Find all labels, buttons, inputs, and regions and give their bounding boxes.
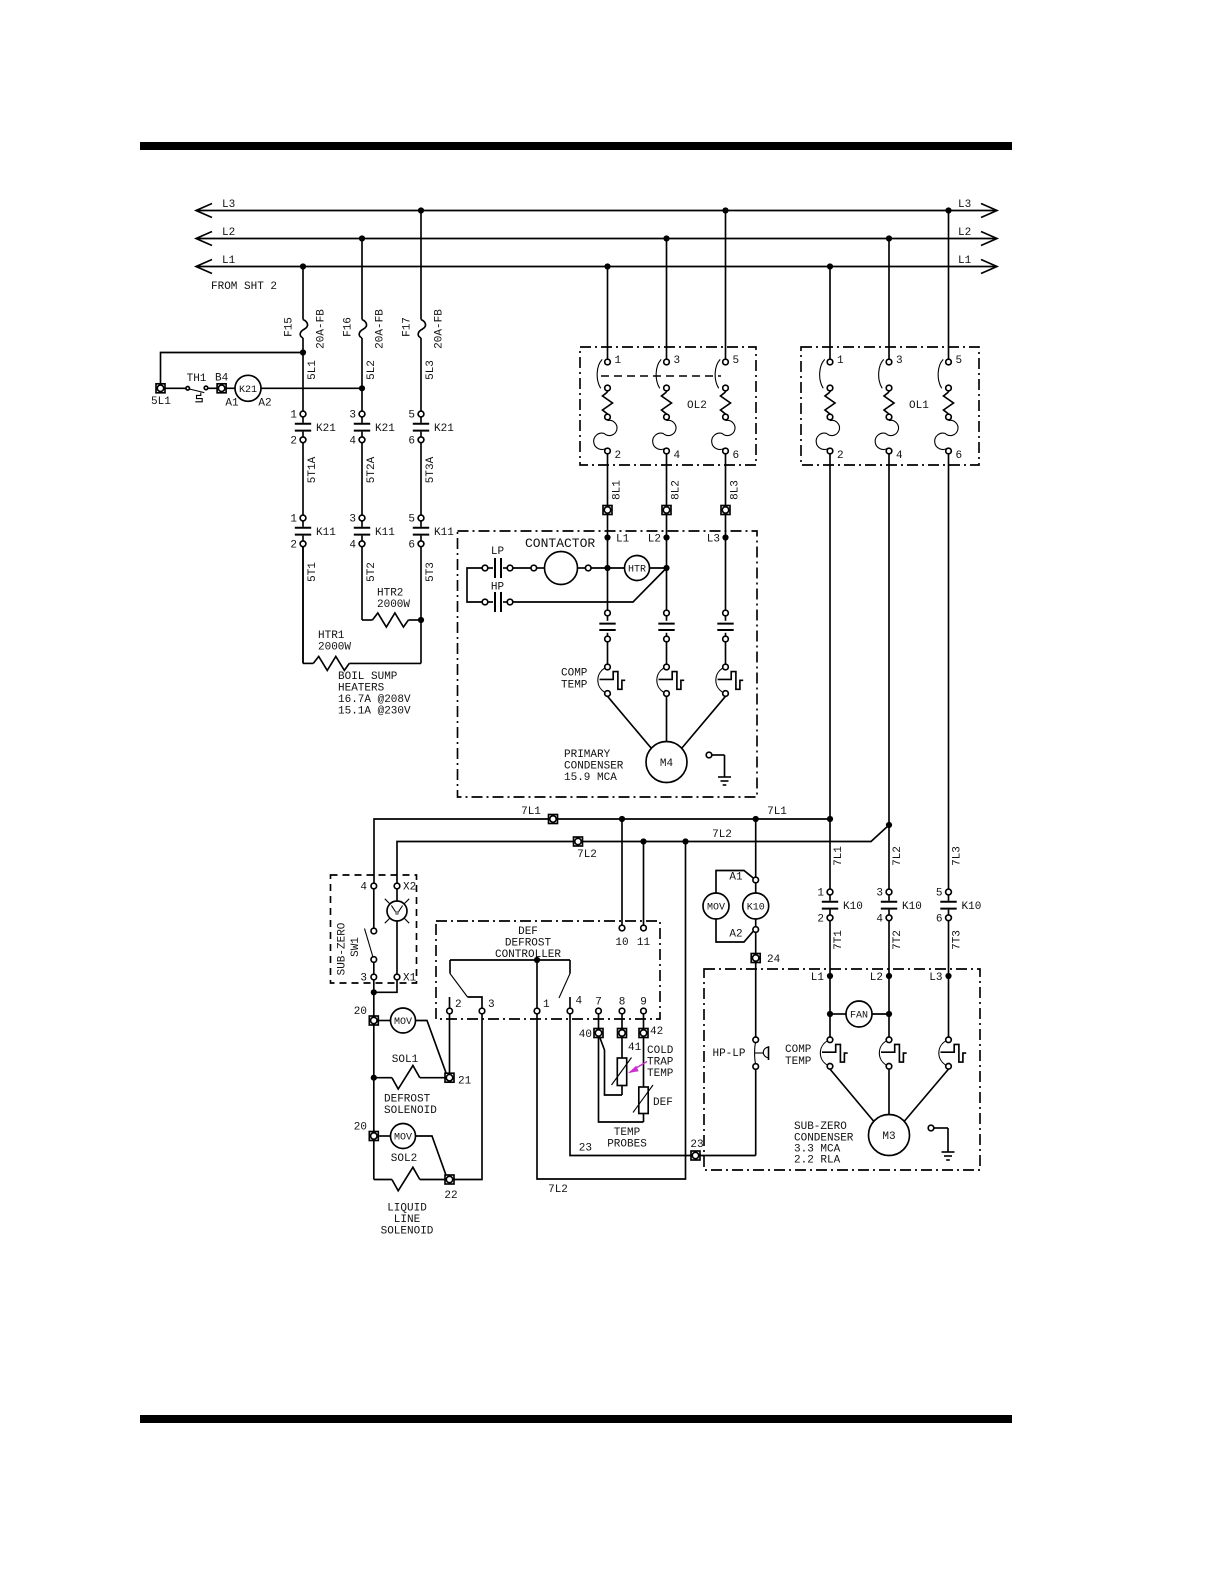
svg-text:7: 7 [595, 997, 602, 1009]
svg-text:5T2A: 5T2A [366, 456, 378, 483]
wire L2 rail to fuse F16 [361, 239, 363, 320]
wire terminal 9 to 42 [643, 1014, 645, 1029]
svg-text:1: 1 [290, 410, 297, 422]
wire 4 to switch [373, 889, 375, 928]
arrow left of rail [196, 232, 212, 246]
svg-text:FROM SHT 2: FROM SHT 2 [211, 281, 277, 293]
terminal 8L3 [721, 506, 730, 515]
arrow right of rail [981, 204, 997, 218]
svg-text:CONTACTOR: CONTACTOR [525, 536, 595, 551]
contactor main contact [599, 610, 615, 642]
pressure switch HP-LP [753, 1037, 769, 1069]
svg-text:5: 5 [733, 355, 740, 367]
wire 7L1 vertical OL1 to K10 [829, 454, 831, 889]
wire pole drop x=666.5 [666, 538, 668, 611]
terminal 8L2 [662, 506, 671, 515]
wire 7T1 [829, 921, 831, 976]
svg-text:6: 6 [408, 539, 415, 551]
arrow left of rail [196, 204, 212, 218]
pressure switch HP [482, 592, 513, 612]
svg-text:20A-FB: 20A-FB [316, 309, 328, 349]
wire X2 to lamp [396, 889, 398, 901]
node L2 condenser [886, 973, 892, 979]
svg-text:22: 22 [444, 1190, 457, 1202]
node L3/OL2 junction [722, 207, 728, 213]
wire L1 rail to fuse F15 [302, 267, 304, 320]
node SW1 output join [371, 989, 377, 995]
wire rail to OL1 terminal 3 [888, 239, 890, 360]
svg-text:2: 2 [290, 539, 297, 551]
svg-text:6: 6 [733, 450, 740, 462]
wire 3 down [373, 980, 375, 1016]
svg-text:5T3A: 5T3A [425, 456, 437, 483]
svg-text:COLD: COLD [647, 1045, 674, 1057]
wire rail to OL2 terminal 3 [666, 239, 668, 360]
wire 5T3 to HTR1 [420, 620, 422, 663]
thermal switch COMP TEMP [657, 664, 684, 696]
terminal 2 [447, 1008, 453, 1014]
wire 5T2 [361, 547, 363, 620]
wire 5L1 terminal to TH1 [165, 387, 186, 389]
overload element OL1 3-4 [875, 355, 903, 462]
mechanical linkage OL2 [601, 375, 721, 377]
svg-text:7L3: 7L3 [952, 846, 964, 866]
terminal 5L1 [156, 384, 165, 393]
svg-text:F15: F15 [284, 317, 296, 337]
node L3 in contactor box [722, 534, 728, 540]
varistor MOV (SOL1) [391, 1008, 416, 1033]
svg-text:HTR1: HTR1 [318, 630, 345, 642]
controller internal bus [450, 959, 570, 961]
svg-text:4: 4 [576, 996, 583, 1008]
wire comp temp to M4 left [608, 696, 652, 748]
svg-text:5L1: 5L1 [151, 396, 171, 408]
svg-text:CONDENSER: CONDENSER [564, 761, 624, 773]
wire coil to L1 [591, 567, 608, 569]
svg-text:L1: L1 [811, 972, 825, 984]
bottom border bar [140, 1415, 1012, 1423]
thermal switch COMP TEMP [716, 664, 743, 696]
svg-text:1: 1 [543, 999, 550, 1011]
svg-text:7L2: 7L2 [892, 846, 904, 866]
wire 5T2A [361, 443, 363, 515]
wire X1 join [374, 980, 397, 993]
svg-text:8L1: 8L1 [612, 480, 624, 500]
wire 40 jog to 41 probe bottom [600, 1038, 622, 1095]
svg-text:6: 6 [936, 913, 943, 925]
relay contact K10 5-6 [936, 888, 981, 926]
fuse F15 20A-FB [300, 320, 307, 339]
wire A2 to terminal 24 [755, 932, 757, 953]
ground in condenser box [928, 1125, 954, 1160]
wire 5T1 [302, 547, 304, 664]
wire 22 to controller 3 [454, 1014, 482, 1180]
wire condenser pole x=830 [829, 976, 831, 1037]
svg-text:20A-FB: 20A-FB [375, 309, 387, 349]
svg-text:41: 41 [628, 1042, 642, 1054]
svg-text:HEATERS: HEATERS [338, 683, 385, 695]
svg-text:B4: B4 [215, 372, 229, 384]
wire 5T1A [302, 443, 304, 515]
terminal 9 [641, 1008, 647, 1014]
svg-text:BOIL SUMP: BOIL SUMP [338, 671, 398, 683]
thermistor 41 (cold trap temp) [612, 1038, 632, 1096]
node L1/OL2 junction [604, 263, 610, 269]
sub-zero switch SW1 box [331, 875, 417, 983]
svg-text:TEMP: TEMP [614, 1127, 641, 1139]
wire pole drop x=725.5 [725, 538, 727, 611]
solenoid SOL1 [374, 1077, 392, 1079]
terminal on 7L2 [574, 837, 583, 846]
svg-text:1: 1 [615, 355, 622, 367]
wire L3 rail to fuse F17 [420, 211, 422, 320]
overload relay OL1 box [801, 347, 979, 465]
svg-text:SOLENOID: SOLENOID [384, 1105, 437, 1117]
wire 21 to controller 2 [449, 1014, 451, 1073]
node 7L2/OL1 output [886, 822, 892, 828]
node HTR2/5T3 junction [418, 617, 424, 623]
wire 7T2 [888, 921, 890, 976]
terminal 4 stub [569, 997, 571, 1008]
svg-text:5L3: 5L3 [425, 360, 437, 380]
svg-text:SOL1: SOL1 [392, 1054, 419, 1066]
arrow right of rail [981, 260, 997, 274]
svg-text:HTR: HTR [628, 565, 646, 576]
svg-text:5L1: 5L1 [307, 360, 319, 380]
svg-text:16.7A @208V: 16.7A @208V [338, 694, 411, 706]
svg-text:4: 4 [360, 882, 367, 894]
svg-text:20A-FB: 20A-FB [434, 309, 446, 349]
svg-text:A2: A2 [258, 398, 271, 410]
wire condenser pole x=948.5 [948, 976, 950, 1037]
terminal 3 [479, 1008, 485, 1014]
svg-text:HTR2: HTR2 [377, 588, 403, 600]
svg-text:COMP: COMP [785, 1044, 812, 1056]
svg-text:2: 2 [455, 999, 462, 1011]
thermal switch COMP TEMP (condenser) [879, 1037, 906, 1069]
svg-text:L2: L2 [958, 227, 971, 239]
svg-text:40: 40 [579, 1029, 592, 1041]
wire 7L1 bus [374, 819, 830, 884]
overload relay OL2 box [580, 347, 756, 465]
terminal 7 [596, 1008, 602, 1014]
svg-text:SUB-ZERO: SUB-ZERO [337, 922, 349, 975]
svg-text:K10: K10 [962, 901, 982, 913]
wire rail to OL2 terminal 5 [725, 211, 727, 360]
wire 8L2 to contactor box [666, 515, 668, 538]
wire HTR to L2 [650, 567, 667, 569]
contactor contact K11 1-2 [290, 514, 336, 552]
wire contact to comp temp [607, 642, 609, 664]
contactor coil [531, 552, 591, 585]
motor M4 [646, 742, 687, 783]
switch SW1 blade [365, 928, 377, 962]
svg-text:7T1: 7T1 [833, 930, 845, 950]
wire HP to L2 diagonal [513, 568, 667, 602]
motor M3 [869, 1115, 910, 1156]
svg-text:TH1: TH1 [187, 373, 207, 385]
svg-text:7L2: 7L2 [548, 1184, 568, 1196]
svg-text:K10: K10 [747, 903, 765, 914]
wire 7L3 vertical OL1 to K10 [948, 454, 950, 889]
wire terminal 7 to 40 [598, 1014, 600, 1029]
wire MOV to A1 [716, 871, 753, 894]
wire 7T3 [948, 921, 950, 976]
wire comp temp to M3 middle [888, 1069, 890, 1114]
wire HP-LP down [755, 1069, 757, 1155]
svg-text:5T1: 5T1 [307, 562, 319, 582]
svg-text:7T3: 7T3 [952, 930, 964, 950]
svg-text:4: 4 [674, 450, 681, 462]
terminal 4 of SW1 [371, 883, 377, 889]
contactor contact K11 3-4 [349, 514, 395, 552]
svg-text:F17: F17 [402, 317, 414, 337]
svg-text:TRAP: TRAP [647, 1057, 674, 1069]
wire 5L2 [361, 338, 363, 411]
svg-text:8L3: 8L3 [730, 480, 742, 500]
node L3 condenser [945, 973, 951, 979]
wire 20 to SOL1 node [373, 1025, 375, 1078]
svg-text:21: 21 [458, 1076, 472, 1088]
wire 5L1 [302, 338, 304, 411]
wire MOV2 to terminal 22 [416, 1136, 447, 1175]
terminal 22 [445, 1175, 454, 1184]
arrow left of rail [196, 260, 212, 274]
svg-text:3: 3 [360, 973, 367, 985]
svg-text:5T3: 5T3 [425, 562, 437, 582]
svg-text:7L1: 7L1 [521, 806, 541, 818]
wire 7L1 to terminal 10 [621, 819, 623, 925]
svg-text:8L2: 8L2 [671, 480, 683, 500]
wire L1 rail [198, 266, 995, 268]
svg-text:K21: K21 [239, 385, 257, 396]
svg-text:DEFROST: DEFROST [384, 1094, 431, 1106]
terminal 11 [641, 925, 647, 931]
contactor main contact [717, 610, 733, 642]
svg-text:SOL2: SOL2 [391, 1153, 417, 1165]
thermal switch TH1 [186, 386, 208, 402]
svg-text:2000W: 2000W [377, 599, 410, 611]
svg-text:3: 3 [349, 514, 356, 526]
wire 8L1 [607, 454, 609, 506]
node L2/OL1 junction [886, 235, 892, 241]
node 7L2/controller-11 [640, 838, 646, 844]
svg-text:LP: LP [491, 546, 505, 558]
terminal 8 [619, 1008, 625, 1014]
svg-text:4: 4 [876, 913, 883, 925]
svg-text:L2: L2 [648, 534, 661, 546]
wire 20 to MOV1 [378, 1020, 390, 1022]
svg-text:MOV: MOV [707, 903, 725, 914]
svg-text:4: 4 [349, 539, 356, 551]
svg-text:L2: L2 [222, 227, 235, 239]
wire comp temp to M4 right [682, 696, 726, 748]
svg-text:OL1: OL1 [909, 400, 929, 412]
terminal 42 [639, 1029, 648, 1038]
wire rail to OL1 terminal 1 [829, 267, 831, 360]
svg-text:1: 1 [817, 888, 824, 900]
svg-text:20: 20 [354, 1122, 367, 1134]
svg-text:SW1: SW1 [350, 937, 362, 957]
wire condenser pole x=889 [888, 976, 890, 1037]
svg-text:LIQUID: LIQUID [387, 1203, 427, 1215]
svg-text:K21: K21 [434, 423, 454, 435]
fuse F16 20A-FB [359, 320, 366, 339]
wire FAN to L2 [872, 1013, 889, 1015]
svg-text:3: 3 [674, 355, 681, 367]
overload element OL1 1-2 [816, 355, 844, 462]
wire 7L2 vertical OL1 to K10 [888, 454, 890, 889]
terminal 20 (lower) [369, 1132, 378, 1141]
svg-text:X2: X2 [403, 882, 416, 894]
node 7L1/K10coil [753, 816, 759, 822]
wire 7L1 to K10 coil A1 [755, 819, 757, 877]
wire 5T3 [420, 547, 422, 620]
wire switch to terminal 3 [373, 962, 375, 974]
node K21 coil on 5L2 [359, 385, 365, 391]
contactor contact K21 5-6 [408, 410, 454, 448]
svg-text:20: 20 [354, 1006, 367, 1018]
svg-text:1: 1 [290, 514, 297, 526]
svg-text:COMP: COMP [561, 668, 588, 680]
wire 5L1 terminal up to F15 node [161, 353, 304, 384]
svg-text:L3: L3 [929, 972, 942, 984]
svg-text:4: 4 [349, 435, 356, 447]
node 7L1/controller-10 [619, 816, 625, 822]
terminal 1 [534, 1008, 540, 1014]
svg-text:6: 6 [956, 450, 963, 462]
svg-text:23: 23 [579, 1143, 592, 1155]
contactor contact K21 1-2 [290, 410, 336, 448]
svg-text:5: 5 [956, 355, 963, 367]
wire SOL branch down [373, 1078, 375, 1180]
wire contact to comp temp [666, 642, 668, 664]
svg-text:1: 1 [837, 355, 844, 367]
svg-text:3: 3 [876, 888, 883, 900]
solenoid SOL2 [374, 1179, 392, 1181]
svg-text:K11: K11 [316, 527, 336, 539]
svg-text:11: 11 [637, 937, 651, 949]
terminal 23 [691, 1151, 700, 1160]
relay coil K21 [235, 375, 261, 401]
svg-text:L1: L1 [222, 255, 236, 267]
pressure switch LP [482, 558, 513, 578]
terminal 10 [619, 925, 625, 931]
wire contact to comp temp [725, 642, 727, 664]
svg-text:10: 10 [615, 937, 628, 949]
overload element OL2 3-4 [653, 355, 681, 462]
svg-text:5T1A: 5T1A [307, 456, 319, 483]
svg-text:PRIMARY: PRIMARY [564, 749, 611, 761]
svg-text:7L2: 7L2 [712, 829, 732, 841]
node 7L2/return wire [682, 838, 688, 844]
relay contact K10 1-2 [817, 888, 862, 926]
arrow right of rail [981, 232, 997, 246]
switch blade to terminal 3 [449, 960, 451, 974]
indicator lamp [385, 899, 409, 923]
svg-text:5: 5 [936, 888, 943, 900]
svg-text:MOV: MOV [394, 1017, 412, 1028]
node L2/OL2 junction [663, 235, 669, 241]
svg-text:SUB-ZERO: SUB-ZERO [794, 1121, 847, 1133]
wire bus to terminal 1 [536, 960, 538, 1008]
wire terminal 8 to 41 [621, 1014, 623, 1029]
svg-text:A1: A1 [729, 872, 743, 884]
svg-text:2: 2 [837, 450, 844, 462]
terminal X1 of SW1 [394, 974, 400, 980]
terminal X2 of SW1 [394, 883, 400, 889]
wire L2 rail [198, 238, 995, 240]
svg-text:2: 2 [290, 435, 297, 447]
contactor main contact [658, 610, 674, 642]
wire 7L2 to terminal 11 [643, 842, 645, 926]
svg-text:HP-LP: HP-LP [712, 1048, 745, 1060]
svg-text:F16: F16 [343, 317, 355, 337]
varistor MOV (SOL2) [391, 1124, 416, 1149]
svg-text:2000W: 2000W [318, 642, 351, 654]
node HTR/L2 [663, 565, 669, 571]
wire 8L1 to contactor box [607, 515, 609, 538]
thermistor DEF [633, 1038, 653, 1123]
node L1/F15 junction [300, 263, 306, 269]
svg-text:24: 24 [767, 954, 781, 966]
terminal A1 [753, 877, 759, 883]
svg-text:9: 9 [640, 997, 647, 1009]
node FAN/L2 [886, 1011, 892, 1017]
terminal A2 [753, 927, 759, 933]
overload element OL1 5-6 [935, 355, 962, 462]
top border bar [140, 142, 1012, 150]
terminal 24 [751, 954, 760, 963]
svg-text:3: 3 [349, 410, 356, 422]
wire L1 to HTR [608, 567, 625, 569]
svg-text:6: 6 [408, 435, 415, 447]
relay contact K10 3-4 [876, 888, 921, 926]
terminal 21 [445, 1073, 454, 1082]
svg-text:2: 2 [615, 450, 622, 462]
svg-text:K11: K11 [375, 527, 395, 539]
svg-text:K21: K21 [316, 423, 336, 435]
wire 8L3 to contactor box [725, 515, 727, 538]
wire LP to HP loop [467, 568, 482, 602]
wire 24 to HP-LP [755, 963, 757, 1038]
svg-text:2.2 RLA: 2.2 RLA [794, 1155, 841, 1167]
svg-text:7T2: 7T2 [892, 930, 904, 950]
svg-text:M4: M4 [660, 758, 674, 770]
varistor MOV across K10 coil [703, 893, 729, 919]
node L1 in contactor box [604, 534, 610, 540]
relay coil K10 [743, 883, 769, 927]
node L1 condenser [827, 973, 833, 979]
terminal 40 [594, 1029, 603, 1038]
node SOL1 [371, 1075, 377, 1081]
heater HTR [625, 556, 650, 581]
node on 5L1 wire below fuse [300, 349, 306, 355]
overload element OL2 5-6 [712, 355, 739, 462]
svg-text:A2: A2 [729, 929, 742, 941]
terminal 4 [567, 1008, 573, 1014]
primary condenser box [458, 531, 758, 797]
svg-text:L3: L3 [707, 534, 720, 546]
switch blade open near 4 [569, 960, 571, 974]
wire pole drop x=607.5 [607, 538, 609, 611]
terminal 41 block [618, 1029, 627, 1038]
wire rail to OL1 terminal 5 [948, 211, 950, 360]
wire 8L3 [725, 454, 727, 506]
terminal 2 stub [449, 997, 451, 1008]
svg-text:15.1A @230V: 15.1A @230V [338, 706, 411, 718]
wire MOV to A2 [716, 919, 753, 942]
